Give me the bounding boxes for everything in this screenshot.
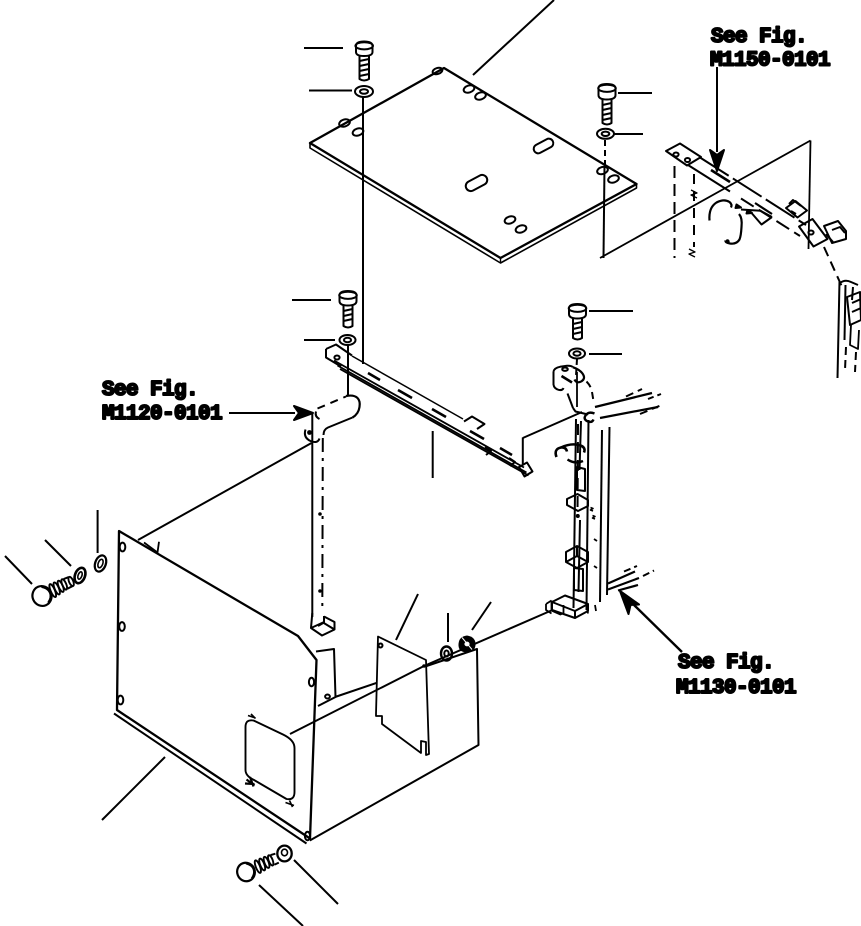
svg-text:M1120-0101: M1120-0101 [102,403,222,426]
svg-text:M1150-0101: M1150-0101 [710,50,830,73]
svg-text:See Fig.: See Fig. [678,652,774,675]
svg-text:See Fig.: See Fig. [102,379,198,402]
svg-text:M1130-0101: M1130-0101 [676,677,796,700]
svg-text:See Fig.: See Fig. [711,26,807,49]
